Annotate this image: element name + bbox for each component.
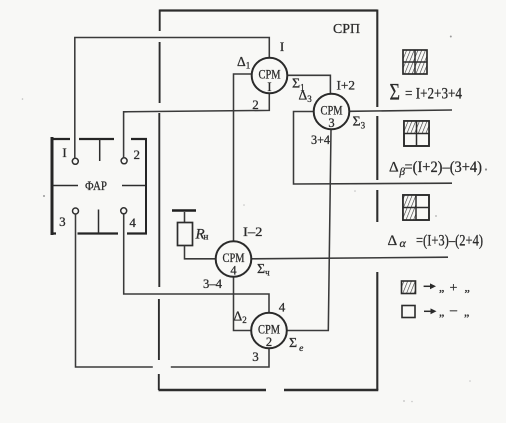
ФАР port 2 feed circle xyxy=(121,158,127,164)
ФАР top quadrant divider xyxy=(99,139,101,161)
wire Σ3: СРМ3 right out to legend line xyxy=(350,110,453,111)
svg-text:„: „ xyxy=(439,305,444,319)
svg-text:= I+2+3+4: = I+2+3+4 xyxy=(405,86,462,103)
key arrow for empty xyxy=(424,310,432,312)
ФАР box bottom edge xyxy=(51,232,147,234)
svg-text:3+4: 3+4 xyxy=(311,133,331,147)
svg-text:2: 2 xyxy=(134,147,141,162)
wire Δ1: СРМ1 left down to СРМ4 top xyxy=(234,74,252,241)
legend square Δα (left column hatched) xyxy=(403,195,429,220)
ФАР port 1 feed circle xyxy=(72,158,78,164)
svg-text:–: – xyxy=(449,303,458,318)
wire resistor to СРМ4 left xyxy=(185,246,216,259)
wire Δ3: СРМ3 left, down, out right as Δβ line xyxy=(294,112,453,185)
ФАР bottom quadrant divider xyxy=(98,210,100,234)
ФАР box right edge xyxy=(145,138,147,235)
wire port4 to СРМ2 top (signal 4) xyxy=(124,214,269,313)
svg-text:+: + xyxy=(450,281,458,296)
resistor Rн body xyxy=(178,223,193,246)
svg-text:I+2: I+2 xyxy=(337,79,356,93)
svg-text:„: „ xyxy=(439,280,444,294)
svg-text:СРП: СРП xyxy=(333,21,360,36)
svg-text:=(I+3)–(2+4): =(I+3)–(2+4) xyxy=(416,233,483,250)
svg-text:ФАР: ФАР xyxy=(85,178,107,193)
ФАР port 3 feed circle xyxy=(73,208,79,214)
legend square Σ (all hatched) xyxy=(403,50,427,74)
svg-text:3–4: 3–4 xyxy=(203,277,223,291)
svg-text:4: 4 xyxy=(279,300,286,315)
wire Δ2: СРМ2 left up to СРМ4 bottom xyxy=(234,277,252,331)
enclosure box СРП bottom edge xyxy=(159,389,379,392)
svg-text:3: 3 xyxy=(328,116,334,130)
svg-text:„: „ xyxy=(465,280,470,294)
svg-text:I: I xyxy=(267,80,271,94)
scan noise specks xyxy=(43,195,45,197)
svg-text:Δ: Δ xyxy=(388,233,398,249)
svg-text:I: I xyxy=(62,145,66,160)
op-amp СРМ2 hybrid ring xyxy=(251,313,287,349)
svg-text:3: 3 xyxy=(252,349,259,364)
ФАР box left edge xyxy=(51,137,54,235)
svg-text:2: 2 xyxy=(266,335,272,349)
enclosure box СРП top edge xyxy=(160,9,378,11)
wire port3 to СРМ2 bottom (signal 3) xyxy=(76,214,270,367)
wire Σ1: СРМ1 right to СРМ3 top xyxy=(287,75,330,93)
key arrow for hatched xyxy=(424,285,431,287)
svg-text:=(I+2)–(3+4): =(I+2)–(3+4) xyxy=(405,159,483,176)
wire port1 to СРМ1 top (signal I) xyxy=(75,38,269,159)
legend square Δβ (top row hatched) xyxy=(404,121,429,146)
op-amp СРМ4 hybrid ring xyxy=(216,241,252,277)
svg-text:2: 2 xyxy=(252,97,259,112)
enclosure box СРП right edge xyxy=(376,10,378,391)
wire bar to resistor xyxy=(184,212,186,223)
svg-text:н: н xyxy=(204,232,209,242)
svg-text:3: 3 xyxy=(59,214,66,229)
ФАР box top edge xyxy=(51,138,147,140)
ФАР middle divider xyxy=(53,185,146,187)
svg-text:4: 4 xyxy=(129,215,136,230)
wire Σ4 output line to Δα legend xyxy=(252,257,449,259)
svg-text:Σ: Σ xyxy=(390,80,401,105)
key hatched square xyxy=(402,281,416,294)
svg-text:I–2: I–2 xyxy=(243,225,263,239)
svg-text:4: 4 xyxy=(230,264,237,278)
ФАР port 4 feed circle xyxy=(121,208,127,214)
wire Σ2 (3+4): СРМ2 right up to СРМ3 bottom xyxy=(287,130,331,331)
svg-text:„: „ xyxy=(464,305,469,319)
svg-text:α: α xyxy=(400,236,407,250)
termination bar of load xyxy=(172,209,196,212)
enclosure box СРП left edge (dashed where wires cross) xyxy=(158,10,161,391)
svg-text:I: I xyxy=(280,39,284,54)
svg-text:Δ: Δ xyxy=(389,160,399,176)
op-amp СРМ1 hybrid ring xyxy=(252,58,288,94)
wire СРМ1 bottom to port2 (signal 2) xyxy=(124,94,270,158)
key empty square xyxy=(402,306,415,318)
op-amp СРМ3 hybrid ring xyxy=(314,94,350,130)
